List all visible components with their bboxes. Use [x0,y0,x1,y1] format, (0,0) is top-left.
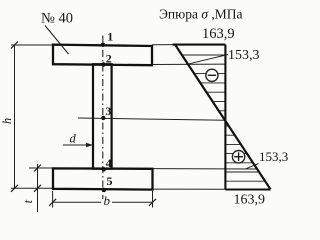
point 2 [101,52,112,67]
title "Epyura sigma, MPa" [159,7,243,22]
point 4 [102,156,112,172]
h extension line bottom [11,187,53,189]
neutral axis projection line [78,118,225,120]
h label [0,118,14,124]
svg-text:163,9: 163,9 [202,26,235,42]
b label [104,193,111,208]
d label [70,131,77,145]
leader 153,3 top [189,55,228,64]
value 153,3 bottom [259,149,288,164]
label "No 40" [41,11,73,27]
svg-text:2: 2 [106,52,112,66]
h dimension line [11,42,18,192]
stress diagram outline [173,45,271,190]
svg-text:Эпюра σ ,МПа: Эпюра σ ,МПа [159,7,243,22]
t extension line [29,167,53,169]
stress diagram diagonal [175,45,271,190]
point 3 [101,104,111,120]
svg-text:4: 4 [106,156,112,170]
h extension line top [11,44,53,46]
d dimension line [63,143,93,147]
value 163,9 bottom [234,193,266,208]
t dimension line [34,164,41,212]
svg-text:3: 3 [105,104,111,118]
svg-text:1: 1 [107,30,113,44]
projection line bottom edge [153,188,225,190]
point 5 [102,174,113,192]
value 153,3 top [228,48,260,63]
b dimension line [49,199,156,206]
svg-text:№ 40: № 40 [41,11,73,27]
hatch lower triangle [225,126,265,181]
t label [21,199,35,203]
svg-text:t: t [21,199,35,203]
bottom flange [53,168,153,189]
leader 153,3 bottom [246,164,259,169]
point 1 [101,30,114,47]
projection line bottom flange top [153,168,258,170]
minus sign circle [206,69,218,81]
svg-text:5: 5 [107,174,113,188]
plus sign circle [232,151,244,163]
hatch upper triangle [182,55,226,111]
value 163,9 top [202,26,235,42]
svg-text:d: d [70,131,77,145]
web [93,64,112,169]
projection line flange bottom [153,63,226,65]
svg-text:153,3: 153,3 [259,149,288,164]
svg-text:b: b [104,193,111,208]
svg-text:h: h [0,118,14,124]
b extension lines [53,191,153,208]
leader from No40 to top flange [45,26,69,55]
top flange [53,45,152,66]
projection line top edge [152,44,174,46]
svg-text:153,3: 153,3 [228,48,260,63]
centerline axis [102,36,104,200]
svg-text:163,9: 163,9 [234,193,266,208]
